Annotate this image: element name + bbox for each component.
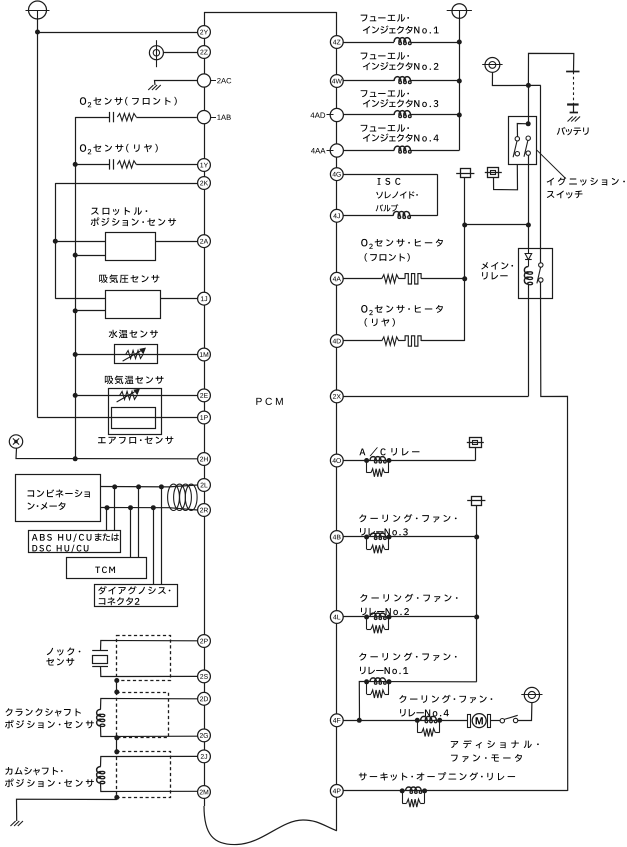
- O2 sensor (rear) label: [80, 144, 86, 152]
- fuel injector No.1 coil: [394, 38, 410, 42]
- cooling fan relay No.2 label: [360, 594, 367, 602]
- fan motor relay: [415, 718, 420, 723]
- pin 1AB (empty): [197, 111, 210, 124]
- wire injector 3 to bus: [411, 114, 460, 116]
- chassis ground bottom left: [10, 821, 15, 826]
- fan motor M: [472, 714, 486, 728]
- noise condenser W2 (battery feed): [485, 58, 500, 73]
- junction dot meter lower 3: [151, 505, 156, 510]
- ignition switch box: [509, 117, 537, 165]
- pin 2A: [198, 235, 211, 248]
- junction dot rail75 at 2H wire: [73, 456, 78, 461]
- wire 4W to injector 2: [343, 80, 394, 82]
- PCM box top edge: [204, 12, 337, 14]
- pin 4Z: [330, 36, 343, 49]
- wire heater front to supply: [421, 278, 465, 280]
- ground symbol G3 (top right): [452, 4, 467, 19]
- pin 2P: [198, 635, 211, 648]
- fuse F4: [472, 497, 482, 506]
- O2 heater front resistor: [382, 275, 399, 283]
- junction dot 4B supply: [474, 535, 479, 540]
- crankshaft sensor label: [5, 708, 12, 716]
- wire pressure upper left: [55, 298, 105, 300]
- wire ignition right leg down: [528, 155, 530, 248]
- junction dot heater supply: [462, 276, 467, 281]
- main relay contact b: [539, 278, 543, 282]
- TCM box: [67, 558, 147, 579]
- wire 4A to resistor: [343, 278, 381, 280]
- fuel injector No.4 coil: [394, 146, 410, 150]
- wire O2 rear left lead: [75, 164, 109, 166]
- fan switch contact a: [500, 719, 504, 723]
- wire O2 front left lead: [75, 117, 109, 119]
- junction dot O2 rear: [73, 162, 78, 167]
- junction dot meter lower 2: [128, 505, 133, 510]
- pin 2R: [198, 504, 211, 517]
- junction dot shield knock: [114, 678, 119, 683]
- water temp sensor box: [115, 345, 158, 364]
- ground symbol G2 (circle with X): [9, 435, 22, 448]
- ISC solenoid valve label: [378, 178, 381, 185]
- shield drain wire segment 2: [116, 738, 118, 752]
- ISC solenoid coil: [393, 211, 410, 215]
- wire to TCM box right: [138, 487, 140, 558]
- cooling fan relay No.2: [364, 615, 369, 620]
- pin 4AA (empty): [330, 144, 343, 157]
- ignition switch blade 2: [524, 141, 528, 157]
- main relay contact blade: [537, 267, 541, 283]
- wire to ABS box left: [106, 508, 108, 531]
- ignition switch pointer line: [537, 150, 566, 178]
- junction dot meter lower 1: [105, 505, 110, 510]
- chassis ground at battery: [568, 117, 573, 122]
- shield box cam sensor (dashed): [117, 752, 171, 798]
- ISC box right edge: [437, 174, 439, 216]
- wire knock top to pin 2P: [101, 641, 198, 651]
- wire feed to ignition switch: [528, 85, 530, 123]
- pin 2AC (empty): [197, 74, 210, 87]
- air temp thermistor: [120, 391, 137, 399]
- wire O2 rear to pin 1Y: [136, 164, 197, 166]
- A/C relay label: [359, 448, 365, 455]
- combination meter label: [28, 490, 35, 497]
- ignition switch contact 2b: [526, 151, 530, 155]
- PCM box wavy bottom edge: [204, 806, 337, 845]
- wire relay No.4 row: [359, 682, 476, 721]
- fuse F3 (A/C): [470, 438, 482, 448]
- pin 4A: [330, 272, 343, 285]
- pin 2AC label: [211, 80, 216, 82]
- pin 1AB label: [211, 117, 216, 119]
- knock sensor label: [47, 648, 53, 655]
- main relay coil: [524, 267, 528, 285]
- cooling fan relay No.4 label: [399, 695, 406, 703]
- pin 4O: [330, 454, 343, 467]
- PCM box right edge: [336, 12, 338, 831]
- O2 sensor (rear) resistor: [117, 161, 136, 168]
- main relay box: [519, 249, 553, 299]
- sensor ground rail x=75 vertical: [75, 117, 77, 459]
- junction dot shield crank top: [114, 690, 119, 695]
- wire ISC bottom right part: [410, 215, 438, 217]
- wire W2 to feed junction: [492, 72, 540, 85]
- pin 1J: [198, 292, 211, 305]
- pin 2K: [198, 177, 211, 190]
- wire 2Y to ground rail: [38, 32, 198, 34]
- pin 4L: [330, 611, 343, 624]
- junction dot meter upper 2: [136, 484, 141, 489]
- pin 2J: [198, 750, 211, 763]
- cooling fan relay No.4: [364, 679, 369, 684]
- intake pressure sensor box: [106, 291, 161, 319]
- wire injector 2 to bus: [411, 80, 460, 82]
- fuel injector No.1 label: [361, 15, 368, 22]
- pin 2D: [198, 692, 211, 705]
- wire water temp through: [75, 354, 197, 356]
- wire ISC coil to 4J: [343, 215, 393, 217]
- wire 4L row: [343, 616, 476, 618]
- battery label: [557, 127, 566, 135]
- ignition switch contact 1b: [515, 152, 519, 156]
- wire 2X to main relay: [343, 396, 528, 398]
- circuit opening relay: [400, 788, 405, 793]
- noise condenser W3 (fan ground): [524, 687, 539, 702]
- fan motor bracket left: [468, 715, 471, 728]
- O2 heater rear resistor: [382, 337, 399, 345]
- airflow sensor label: [98, 437, 106, 443]
- pin 2Y: [198, 26, 211, 39]
- A/C relay: [364, 458, 369, 463]
- fan switch blade: [504, 715, 517, 719]
- junction dot 4F relay No.4: [357, 718, 362, 723]
- fuse F2 (double): [488, 168, 499, 178]
- cooling fan relay No.3: [364, 535, 369, 540]
- fuel injector No.2 label: [361, 53, 368, 60]
- shield drain wire segment 1: [116, 681, 118, 693]
- ground rail (left outer) vertical: [37, 32, 39, 418]
- wire 4O row: [343, 460, 475, 462]
- wire battery to ignition feed: [528, 53, 573, 85]
- camshaft sensor label: [5, 767, 12, 775]
- junction dot ignition column: [526, 223, 531, 228]
- wire cam bottom to pin 2M: [101, 783, 198, 791]
- O2 heater front element: [405, 274, 421, 284]
- wire 4Z to injector 1: [343, 42, 394, 44]
- junction dot bus inj1: [457, 40, 462, 45]
- junction dot rail75 throttle: [73, 253, 78, 258]
- diagnosis connector 2 box: [95, 585, 178, 607]
- pin 4AD label: [310, 113, 314, 118]
- junction dot meter upper 1: [112, 484, 117, 489]
- shield drain wire segment 3: [116, 797, 118, 799]
- O2 heater rear element: [405, 336, 421, 346]
- intake pressure sensor label: [99, 275, 107, 283]
- wire F1 row to ignition column: [465, 224, 529, 226]
- wire to TCM box left: [130, 508, 132, 558]
- main relay label: [481, 262, 488, 270]
- crankshaft sensor coil: [97, 709, 101, 726]
- pin 2X: [330, 390, 343, 403]
- wire injector 4 to bus: [411, 150, 460, 152]
- wire feed to main relay contact: [540, 85, 542, 262]
- wire cam top to pin 2J: [101, 756, 198, 766]
- fan motor bracket right: [488, 715, 491, 728]
- wire 4AA to injector 4: [343, 150, 394, 152]
- wire main relay coil to 2X wire: [528, 284, 530, 396]
- twisted pair loops 2L/2R: [168, 484, 180, 510]
- wire motor to switch: [491, 720, 501, 722]
- cooling fan relay No.3 label: [359, 514, 366, 522]
- chassis ground at 2AC: [148, 85, 153, 90]
- fuse F1 (single): [461, 169, 471, 178]
- wire air temp through: [75, 395, 197, 397]
- wire A/C row up to fuse F3: [475, 448, 477, 461]
- wire switch to ground W3: [518, 703, 532, 721]
- fuel injector No.3 coil: [394, 111, 410, 115]
- injector supply bus: [459, 18, 461, 150]
- wire pressure to pin 1J: [160, 298, 197, 300]
- pin 4W: [330, 75, 343, 88]
- wire 4D to resistor: [343, 340, 381, 342]
- wire to ABS box right: [114, 487, 116, 531]
- pin 2M: [198, 786, 211, 799]
- throttle position sensor label: [91, 208, 99, 215]
- O2 sensor heater (rear) label: [361, 305, 367, 313]
- fuel injector No.2 coil: [394, 77, 410, 81]
- battery ground stem: [573, 105, 575, 113]
- pin 2Z: [198, 46, 211, 59]
- wire 1P from ground rail through airflow box: [38, 417, 198, 419]
- camshaft sensor coil: [97, 767, 101, 784]
- noise condenser W1 (at 2Z): [149, 46, 163, 60]
- pin 4AD (empty): [330, 108, 343, 121]
- pin 2L: [198, 479, 211, 492]
- wire 4G to ISC box: [343, 174, 437, 176]
- ABS HU/CU box: [29, 531, 121, 553]
- wire 4AD to injector 3: [343, 114, 394, 116]
- junction dot shield cam bottom: [114, 795, 119, 800]
- pin 4AA label: [311, 148, 315, 153]
- heater supply vertical: [464, 178, 466, 342]
- wire O2 front to pin 1AB: [136, 117, 197, 119]
- O2 sensor heater (front) label: [361, 239, 367, 247]
- O2 sensor (front) resistor: [117, 114, 136, 121]
- water temp sensor label: [109, 330, 118, 338]
- junction dot bus inj3: [457, 113, 462, 118]
- wire 4P row: [343, 790, 567, 792]
- wire 2K to rail x=55: [55, 183, 197, 185]
- ignition switch label: [547, 178, 554, 186]
- supply rail x=55 vertical: [55, 183, 57, 299]
- junction dot rail75 air temp: [73, 393, 78, 398]
- O2 sensor (front) label: [80, 97, 86, 105]
- junction dot meter upper 3: [159, 484, 164, 489]
- wire ignition internal bridge: [517, 124, 528, 137]
- wire 2Z to condenser W1: [163, 52, 197, 54]
- pin 4B: [330, 531, 343, 544]
- junction dot rail75 water temp: [73, 352, 78, 357]
- shield box crank sensor (dashed): [117, 693, 169, 738]
- wire G2 to pin 2H: [16, 448, 197, 459]
- pin 4P: [330, 785, 343, 798]
- ground symbol G1 (top left): [29, 1, 47, 19]
- wire 4F row: [343, 720, 467, 722]
- junction dot ignition internal: [526, 121, 531, 126]
- additional fan motor label: [451, 741, 458, 748]
- wire throttle upper left: [55, 241, 105, 243]
- airflow sensor inner box: [112, 408, 156, 429]
- water temp thermistor: [126, 351, 143, 359]
- circuit opening relay label: [359, 773, 367, 781]
- intake air temp sensor label: [105, 376, 113, 384]
- pin 1Y: [198, 159, 211, 172]
- wire resistor to heater front: [399, 278, 405, 280]
- pin 2G: [198, 729, 211, 742]
- wire main relay contact down: [541, 282, 568, 791]
- wire shield drain to ground: [17, 799, 117, 821]
- wire knock bottom to pin 2S: [101, 666, 198, 676]
- pin 4J: [330, 209, 343, 222]
- junction dot shield cam top: [114, 749, 119, 754]
- junction dot rail75 pressure: [73, 308, 78, 313]
- cooling fan relay No.1 label: [359, 653, 366, 661]
- fuel injector No.4 label: [361, 125, 368, 132]
- O2 sensor (front) capacitor: [109, 112, 111, 122]
- main relay contact a: [539, 263, 543, 267]
- pin 1P: [198, 411, 211, 424]
- junction dot 4L supply: [474, 615, 479, 620]
- junction dot feed: [526, 83, 531, 88]
- PCM box left edge: [204, 12, 206, 806]
- pin 4G: [330, 168, 343, 181]
- wire to diagnosis connector left: [153, 508, 155, 585]
- PCM label: [256, 398, 261, 405]
- pin 2E: [198, 389, 211, 402]
- battery positive plate: [566, 71, 579, 73]
- wire meter lower to 2R: [100, 508, 197, 511]
- pin 4D: [330, 335, 343, 348]
- wire crank top to pin 2D: [101, 699, 198, 710]
- wire meter upper to 2L: [100, 485, 197, 487]
- junction dot bus inj2: [457, 79, 462, 84]
- wire pressure lower left: [75, 310, 105, 312]
- wire F2 to ignition switch: [494, 164, 518, 190]
- knock sensor piezo element: [92, 650, 108, 652]
- wire throttle to pin 2A: [156, 241, 198, 243]
- wire throttle lower left: [75, 255, 105, 257]
- combination meter box: [16, 475, 101, 522]
- junction dot supply F1: [462, 223, 467, 228]
- ignition switch contact 1a: [515, 137, 519, 141]
- TCM label: [95, 567, 100, 573]
- wire heater rear to supply corner: [421, 340, 465, 342]
- battery negative plate: [567, 103, 579, 105]
- main relay diode: [528, 248, 530, 254]
- intake air temp outer box: [109, 389, 162, 435]
- junction dot rail55 throttle: [53, 239, 58, 244]
- wire injector 1 to bus: [411, 42, 460, 44]
- wire ground G1 stem: [37, 19, 39, 32]
- ignition switch contact 2a: [526, 136, 530, 140]
- pin 2H: [198, 453, 211, 466]
- wire resistor to heater rear: [399, 340, 405, 342]
- pin 2S: [198, 670, 211, 683]
- junction dot at ground rail top: [35, 30, 40, 35]
- wire to diagnosis connector right: [161, 487, 163, 585]
- junction dot shield crank bottom: [114, 735, 119, 740]
- fuel injector No.3 label: [361, 90, 368, 97]
- ABS HU/CU label: [32, 534, 38, 541]
- fan switch contact b: [513, 718, 517, 722]
- fan supply vertical: [476, 505, 478, 682]
- ignition switch blade 1: [513, 141, 517, 157]
- battery cells (dashed): [573, 72, 575, 105]
- wire 2AC ground lead: [155, 81, 198, 86]
- pin 4F: [330, 714, 343, 727]
- diagnosis connector 2 label: [98, 586, 106, 594]
- throttle position sensor box: [106, 233, 156, 261]
- wire crank bottom to pin 2G: [101, 726, 198, 737]
- wire 4B row: [343, 536, 476, 538]
- shield box knock sensor (dashed): [117, 636, 171, 681]
- pin 1M: [198, 348, 211, 361]
- O2 sensor (rear) capacitor: [109, 159, 111, 169]
